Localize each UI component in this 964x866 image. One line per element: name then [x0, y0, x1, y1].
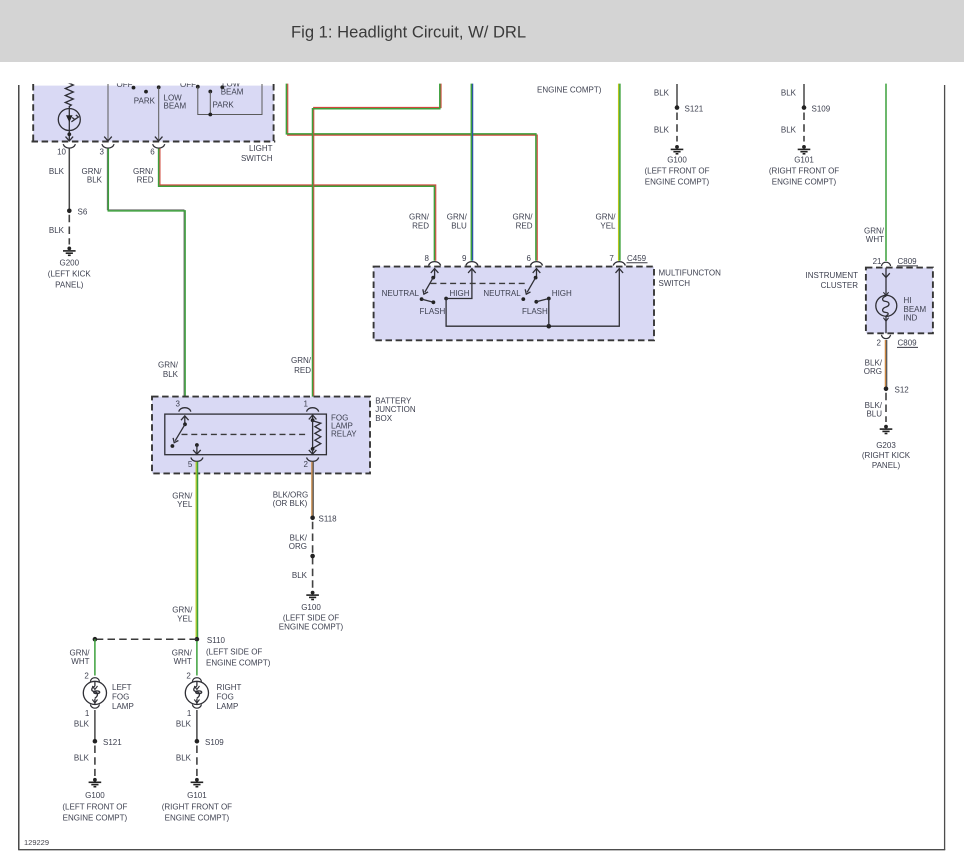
- relay coil wire to pin 2: [309, 449, 317, 454]
- svg-text:S118: S118: [319, 514, 338, 523]
- switch A contact dot 2: [144, 90, 148, 94]
- svg-text:HI: HI: [904, 296, 912, 305]
- relay pin 5 connector: [191, 458, 203, 462]
- relay switch contact dot: [171, 444, 175, 448]
- inline connection dot: [310, 554, 315, 559]
- down arrow at light switch pin 10: [66, 137, 74, 141]
- svg-text:BLK: BLK: [87, 176, 103, 185]
- switch B bracket junction dot: [208, 113, 212, 117]
- svg-text:C809: C809: [898, 338, 918, 347]
- svg-text:2: 2: [877, 338, 882, 347]
- svg-text:S109: S109: [812, 105, 831, 114]
- svg-text:PANEL): PANEL): [55, 281, 84, 290]
- switch B contact dot 3: [220, 85, 224, 89]
- wire HIGH contact to pin 9: [446, 268, 472, 298]
- wire GRN/WHT to right fog lamp: [196, 641, 198, 676]
- switch B bracket wire: [198, 84, 262, 115]
- svg-text:G100: G100: [85, 791, 105, 800]
- light switch internal wire pin 6: [158, 87, 160, 140]
- wire GRN/YEL from relay pin 5 to S110: [196, 462, 197, 639]
- switch B contact dot 1: [196, 85, 200, 89]
- splice S12: [884, 387, 889, 392]
- svg-text:HIGH: HIGH: [450, 289, 470, 298]
- svg-text:SWITCH: SWITCH: [241, 154, 273, 163]
- svg-text:S110: S110: [207, 636, 226, 645]
- fog lamp relay inner box: [165, 414, 327, 455]
- svg-text:S109: S109: [205, 738, 224, 747]
- svg-text:ENGINE COMPT): ENGINE COMPT): [206, 659, 271, 668]
- svg-text:G101: G101: [187, 791, 207, 800]
- mechanical linkage dashed: [431, 282, 529, 284]
- cluster internal wire to pin 2: [883, 316, 888, 334]
- relay coil top dot: [311, 418, 315, 422]
- dimmer switch 2 blade: [525, 278, 535, 295]
- svg-text:BLK: BLK: [654, 89, 670, 98]
- switch B contact dot 2: [208, 90, 212, 94]
- svg-text:BLK: BLK: [74, 720, 90, 729]
- svg-text:WHT: WHT: [174, 657, 192, 666]
- splice S121 (bottom): [93, 739, 98, 744]
- wire BLK/BLU dashed to G203: [885, 393, 887, 422]
- svg-text:SWITCH: SWITCH: [659, 279, 691, 288]
- svg-text:(LEFT FRONT OF: (LEFT FRONT OF: [62, 802, 127, 811]
- pin 9 connector: [466, 262, 478, 266]
- wire GRN/YEL to multifunction switch pin 7: [619, 84, 620, 261]
- FLASH contact dot (switch 1): [432, 300, 436, 304]
- right fog lamp: [185, 681, 208, 704]
- svg-text:RED: RED: [412, 221, 429, 230]
- svg-text:RIGHT: RIGHT: [217, 683, 242, 692]
- svg-text:1: 1: [85, 709, 90, 718]
- svg-text:BLK: BLK: [654, 126, 670, 135]
- svg-text:21: 21: [873, 257, 882, 266]
- dimmer switch 2 input arrow (pin 6): [533, 268, 541, 277]
- connector C459 label: [627, 254, 648, 263]
- svg-text:FOG: FOG: [217, 692, 234, 701]
- relay coil input arrow (pin 1): [309, 414, 317, 420]
- svg-text:S6: S6: [78, 208, 88, 217]
- splice S110: [195, 637, 200, 642]
- svg-text:G100: G100: [667, 156, 687, 165]
- svg-text:GRN/: GRN/: [172, 648, 193, 657]
- svg-text:FLASH: FLASH: [420, 307, 446, 316]
- svg-text:3: 3: [176, 400, 181, 409]
- right fog lamp pin 1 connector: [192, 704, 201, 708]
- ground G100 (top right): [671, 145, 684, 154]
- splice S121: [675, 105, 680, 110]
- wire BLK to S109 (top right): [803, 84, 805, 108]
- svg-text:(RIGHT FRONT OF: (RIGHT FRONT OF: [162, 802, 232, 811]
- svg-text:GRN/: GRN/: [864, 226, 885, 235]
- multifunction switch box: [374, 267, 654, 341]
- junction dot below lamp: [67, 132, 71, 136]
- svg-text:C809: C809: [898, 257, 918, 266]
- svg-text:LIGHT: LIGHT: [249, 144, 273, 153]
- svg-text:NEUTRAL: NEUTRAL: [382, 289, 420, 298]
- svg-text:PANEL): PANEL): [872, 461, 901, 470]
- svg-text:ORG: ORG: [864, 367, 882, 376]
- svg-text:9: 9: [462, 254, 467, 263]
- svg-text:(OR BLK): (OR BLK): [273, 499, 308, 508]
- NEUTRAL contact dot (switch 2): [521, 297, 525, 301]
- NEUTRAL contact dot (switch 1): [420, 297, 424, 301]
- relay switch blade: [173, 424, 185, 442]
- splice S118: [310, 516, 315, 521]
- svg-text:LEFT: LEFT: [112, 683, 132, 692]
- wire GRN/RED (from above) to fog lamp relay pin 1: [313, 84, 442, 406]
- svg-text:HIGH: HIGH: [552, 289, 572, 298]
- pin 8 connector: [429, 262, 441, 266]
- svg-text:BLK: BLK: [781, 126, 797, 135]
- pin 6 connector: [530, 262, 542, 266]
- left fog lamp: [83, 681, 106, 704]
- svg-text:GRN/: GRN/: [172, 606, 193, 615]
- svg-text:(RIGHT FRONT OF: (RIGHT FRONT OF: [769, 167, 839, 176]
- junction dot on high beam wire: [547, 324, 552, 329]
- svg-text:G100: G100: [301, 603, 321, 612]
- pin 7 up arrow: [616, 269, 624, 273]
- svg-text:BLK/: BLK/: [290, 534, 308, 543]
- svg-text:BLK: BLK: [49, 226, 65, 235]
- wire GRN/BLU to multifunction switch pin 9: [471, 84, 472, 261]
- svg-text:(LEFT FRONT OF: (LEFT FRONT OF: [644, 167, 709, 176]
- FLASH contact dot (switch 2): [534, 300, 538, 304]
- svg-text:YEL: YEL: [177, 614, 193, 623]
- battery junction box: [152, 397, 370, 474]
- svg-text:MULTIFUNCTON: MULTIFUNCTON: [659, 268, 722, 277]
- svg-text:CLUSTER: CLUSTER: [821, 281, 859, 290]
- svg-text:GRN/: GRN/: [133, 167, 154, 176]
- relay coil bottom dot: [311, 447, 315, 451]
- svg-text:S121: S121: [685, 105, 704, 114]
- svg-text:BATTERY: BATTERY: [375, 396, 412, 405]
- wire GRN/RED from light switch pin 6 to multifunction switch pin 8: [159, 149, 436, 261]
- splice S109: [802, 105, 807, 110]
- ground G101 (top right): [798, 145, 811, 154]
- splice S6: [67, 209, 72, 214]
- HIGH contact dot (switch 1): [444, 297, 448, 301]
- wire GRN/WHT to left fog lamp: [94, 639, 96, 675]
- svg-text:BLK: BLK: [74, 753, 90, 762]
- instrument cluster box: [866, 268, 933, 334]
- down arrow at light switch pin 3: [104, 137, 112, 141]
- svg-text:ENGINE COMPT): ENGINE COMPT): [772, 177, 837, 186]
- svg-text:ENGINE COMPT): ENGINE COMPT): [645, 177, 710, 186]
- svg-text:GRN/: GRN/: [70, 648, 91, 657]
- relay output wire to pin 5: [193, 445, 201, 454]
- svg-text:RED: RED: [137, 176, 154, 185]
- svg-text:GRN/: GRN/: [172, 492, 193, 501]
- wire HIGH contact to pin 7: [446, 268, 619, 326]
- svg-text:GRN/: GRN/: [158, 361, 179, 370]
- relay pin 2 connector: [307, 458, 319, 462]
- svg-text:BLU: BLU: [866, 410, 882, 419]
- svg-text:2: 2: [304, 460, 309, 469]
- svg-text:BOX: BOX: [375, 414, 393, 423]
- svg-text:1: 1: [304, 400, 309, 409]
- pin 6 connector: [153, 144, 165, 148]
- svg-text:IND: IND: [904, 314, 918, 323]
- svg-text:FLASH: FLASH: [522, 307, 548, 316]
- relay pin 3 connector: [179, 408, 191, 412]
- svg-text:BEAM: BEAM: [164, 102, 187, 111]
- dimmer switch 1 pivot dot: [431, 276, 435, 280]
- svg-text:(RIGHT KICK: (RIGHT KICK: [862, 451, 911, 460]
- switch B contact drop wire: [209, 92, 211, 115]
- svg-text:8: 8: [425, 254, 430, 263]
- ground G203: [880, 425, 893, 434]
- svg-text:BLK: BLK: [176, 753, 192, 762]
- svg-text:129229: 129229: [24, 838, 49, 847]
- wire BLK dashed to G101: [803, 113, 805, 142]
- dimmer switch 2 pivot dot: [534, 276, 538, 280]
- relay switch input arrow (pin 3): [181, 416, 189, 425]
- svg-text:10: 10: [57, 147, 66, 156]
- wire BLK dashed to G200: [68, 215, 70, 245]
- svg-text:BLK: BLK: [49, 167, 65, 176]
- switch 1 neutral-flash link wire: [422, 299, 434, 302]
- illumination lamp (light switch): [58, 109, 80, 142]
- svg-text:GRN/: GRN/: [596, 213, 617, 222]
- wire BLK/ORG from cluster pin 2 to S12: [885, 340, 886, 389]
- dimmer switch 1 input arrow (pin 8): [431, 268, 439, 277]
- wire BLK to S121 (top right): [676, 84, 678, 108]
- dashed wire S110 to left fog lamp branch: [95, 638, 197, 640]
- svg-text:JUNCTION: JUNCTION: [375, 405, 416, 414]
- svg-text:ENGINE COMPT): ENGINE COMPT): [165, 814, 230, 823]
- ground G101 (right front): [191, 778, 204, 787]
- top clip cover: [0, 62, 964, 83]
- svg-text:C459: C459: [627, 254, 647, 263]
- wire switch 2 HIGH contact down to high beam wire: [548, 299, 550, 327]
- svg-text:ORG: ORG: [289, 542, 307, 551]
- svg-text:BEAM: BEAM: [221, 88, 244, 97]
- svg-text:FOG: FOG: [112, 692, 129, 701]
- svg-text:PARK: PARK: [134, 97, 156, 106]
- splice S109 (bottom): [195, 739, 200, 744]
- svg-text:GRN/: GRN/: [409, 213, 430, 222]
- svg-text:7: 7: [609, 254, 614, 263]
- diagram frame bottom border: [18, 849, 945, 851]
- connector C809 label (bottom): [897, 338, 918, 347]
- svg-text:G200: G200: [60, 259, 80, 268]
- pin 7 connector: [613, 262, 625, 266]
- svg-text:6: 6: [150, 147, 155, 156]
- svg-text:WHT: WHT: [866, 235, 884, 244]
- svg-text:LAMP: LAMP: [217, 702, 239, 711]
- svg-text:RED: RED: [294, 366, 311, 375]
- switch A contact dot 3 / pin 6 feed: [157, 85, 161, 89]
- svg-text:GRN/: GRN/: [291, 356, 312, 365]
- light switch internal wire pin 3: [107, 84, 109, 140]
- wire BLK from left fog lamp to S121: [94, 710, 96, 741]
- left fog lamp pin 1 connector: [90, 704, 99, 708]
- svg-text:LAMP: LAMP: [112, 702, 134, 711]
- switch A contact dot 1: [132, 86, 136, 90]
- svg-text:BLK: BLK: [781, 89, 797, 98]
- connector C809 label (top): [897, 257, 918, 266]
- svg-text:Fig 1: Headlight Circuit, W/ D: Fig 1: Headlight Circuit, W/ DRL: [291, 23, 526, 42]
- wire GRN/BLK from light switch pin 3 to fog lamp relay pin 3: [107, 149, 185, 407]
- svg-text:(LEFT KICK: (LEFT KICK: [48, 270, 92, 279]
- svg-text:BLK/: BLK/: [865, 401, 883, 410]
- svg-text:GRN/: GRN/: [447, 213, 468, 222]
- svg-text:RELAY: RELAY: [331, 430, 357, 439]
- branch junction dot: [93, 637, 98, 642]
- svg-text:3: 3: [100, 147, 105, 156]
- diagram frame right border: [944, 85, 946, 850]
- svg-text:2: 2: [186, 672, 191, 681]
- svg-text:RED: RED: [516, 221, 533, 230]
- cluster pin 2 connector: [881, 335, 890, 339]
- HIGH contact dot (switch 2): [547, 297, 551, 301]
- svg-text:BLK: BLK: [292, 571, 308, 580]
- light switch box: [32, 84, 276, 142]
- pin 10 connector: [63, 144, 75, 148]
- svg-text:YEL: YEL: [177, 500, 193, 509]
- svg-text:ENGINE COMPT): ENGINE COMPT): [537, 85, 602, 94]
- wire GRN/WHT to instrument cluster pin 21: [885, 84, 887, 261]
- ground G200: [63, 247, 76, 256]
- wire BLK from right fog lamp to S109: [196, 710, 198, 741]
- svg-text:GRN/: GRN/: [82, 167, 103, 176]
- svg-text:(LEFT SIDE OF: (LEFT SIDE OF: [283, 614, 339, 623]
- wire BLK dashed to G100: [676, 113, 678, 142]
- svg-text:(LEFT SIDE OF: (LEFT SIDE OF: [206, 647, 262, 656]
- wire BLK dashed from S118 to G100: [312, 522, 314, 589]
- svg-text:BLU: BLU: [451, 221, 467, 230]
- svg-text:5: 5: [188, 460, 193, 469]
- svg-text:S121: S121: [103, 738, 122, 747]
- dimmer switch 1 blade: [423, 278, 433, 295]
- down arrow at light switch pin 6: [155, 137, 163, 141]
- svg-text:BLK/: BLK/: [865, 358, 883, 367]
- header band: [0, 0, 964, 62]
- relay switch pivot dot: [183, 422, 187, 426]
- wire BLK from light switch pin 10: [68, 149, 70, 211]
- ground G100 (left front): [89, 778, 102, 787]
- svg-text:NEUTRAL: NEUTRAL: [483, 289, 521, 298]
- relay output contact dot: [195, 443, 199, 447]
- relay coil left wire: [312, 420, 314, 449]
- wire GRN/RED (headlight feed) to multifunction switch pin 6: [286, 84, 537, 261]
- svg-text:G203: G203: [876, 441, 896, 450]
- wire BLK dashed to G101: [196, 746, 198, 777]
- relay pin 1 connector: [307, 408, 319, 412]
- left fog lamp pin 2 connector: [90, 678, 99, 682]
- pin 9 up arrow: [468, 269, 476, 273]
- svg-text:ENGINE COMPT): ENGINE COMPT): [279, 623, 344, 632]
- svg-text:YEL: YEL: [600, 221, 616, 230]
- svg-text:GRN/: GRN/: [513, 213, 534, 222]
- ground G100 (left side): [306, 591, 319, 600]
- high beam indicator lamp: [876, 295, 897, 316]
- cluster pin 21 connector: [881, 262, 890, 266]
- svg-text:BLK: BLK: [163, 370, 179, 379]
- svg-text:2: 2: [84, 672, 89, 681]
- svg-text:ENGINE COMPT): ENGINE COMPT): [63, 814, 128, 823]
- svg-text:WHT: WHT: [71, 657, 89, 666]
- svg-text:INSTRUMENT: INSTRUMENT: [806, 271, 859, 280]
- wire BLK/ORG from relay pin 2 to S118: [312, 462, 313, 518]
- svg-text:G101: G101: [794, 156, 814, 165]
- resistor (panel lamp dimmer rheostat): [65, 79, 73, 109]
- pin 3 connector: [102, 144, 114, 148]
- diagram frame left border: [18, 85, 20, 850]
- switch 2 flash-high link wire: [536, 299, 549, 302]
- svg-text:BLK: BLK: [176, 720, 192, 729]
- relay linkage dashed: [182, 433, 306, 435]
- cluster internal wire to lamp: [882, 268, 890, 296]
- right fog lamp pin 2 connector: [192, 678, 201, 682]
- svg-text:6: 6: [527, 254, 532, 263]
- wire BLK dashed to G100: [94, 746, 96, 777]
- relay coil winding: [313, 421, 321, 449]
- svg-text:PARK: PARK: [213, 101, 235, 110]
- svg-text:1: 1: [187, 709, 192, 718]
- svg-text:S12: S12: [895, 385, 910, 394]
